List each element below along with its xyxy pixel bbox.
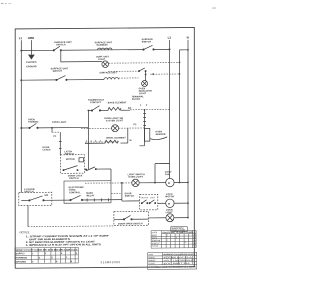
svg-text:316B02050: 316B02050 — [101, 260, 121, 264]
switch S5 oven thermostat — [29, 123, 38, 128]
svg-text:9: 9 — [71, 261, 73, 263]
svg-text:BROIL ELEMENT: BROIL ELEMENT — [106, 137, 126, 139]
wire dashed jog — [52, 131, 60, 133]
lamp oven light — [112, 125, 119, 132]
svg-text:DOOR OPEN SWITCH: DOOR OPEN SWITCH — [118, 223, 143, 225]
svg-text:SW: SW — [44, 195, 49, 197]
switch S2 right surface switch — [143, 45, 154, 50]
wire lower dashed bus — [28, 225, 114, 228]
switch S8b — [149, 200, 156, 204]
svg-text:CLOCK: CLOCK — [148, 263, 155, 265]
svg-text:2: 2 — [45, 253, 47, 255]
wire inside box row3 — [114, 218, 149, 220]
junction L1 rail C — [20, 79, 22, 81]
wire broil rail — [85, 142, 128, 144]
wire drop to lower bus — [27, 205, 29, 226]
wire row3 rail — [149, 217, 189, 219]
junction row3 N — [187, 217, 189, 219]
svg-text:6: 6 — [56, 261, 58, 263]
svg-text:8: 8 — [76, 253, 78, 255]
junction row1 mid column — [179, 182, 181, 184]
junction rail A to L3 — [169, 48, 171, 50]
svg-text:1. STRAP CONNECTIONS SHOWN AT: 1. STRAP CONNECTIONS SHOWN AT L1 OF SURF — [26, 235, 110, 239]
note box shown with door closed — [171, 227, 188, 232]
svg-text:CONTROL: CONTROL — [69, 192, 81, 194]
wire tap down to latch chain — [51, 128, 53, 133]
wire row2 rail to motor — [158, 202, 188, 204]
latch motor component block — [79, 158, 84, 162]
svg-text:SUPPLY: SUPPLY — [16, 253, 26, 255]
svg-text:SWITCH: SWITCH — [69, 178, 79, 180]
switch door latch plunger — [63, 166, 78, 171]
switch S7 inside box — [29, 196, 45, 201]
svg-text:240: 240 — [193, 240, 196, 242]
svg-text:P2: P2 — [134, 124, 138, 126]
lamp M3 oven light round — [166, 214, 174, 222]
svg-text:4: 4 — [61, 252, 63, 255]
wire mid-left vertical — [85, 110, 111, 181]
svg-text:W: W — [130, 140, 133, 142]
terminal ticks rail C right — [108, 70, 139, 72]
wire thermostat rail — [21, 126, 88, 129]
junction rail E left — [88, 110, 90, 112]
svg-text:GRD: GRD — [28, 36, 34, 40]
svg-text:BAKE: BAKE — [152, 234, 158, 237]
heating element coil E2 — [104, 78, 118, 80]
wire broil return vertical — [127, 128, 129, 143]
wire rail A top bus L1 — [21, 49, 169, 50]
svg-text:SWITCH: SWITCH — [125, 196, 135, 198]
svg-text:MOTOR: MOTOR — [165, 196, 174, 198]
dashed box lock switches — [140, 194, 158, 210]
svg-text:LIGHT: LIGHT — [98, 59, 106, 61]
table2 title block grid — [148, 252, 197, 269]
svg-text:VOLT 120/240 60HZ: VOLT 120/240 60HZ — [164, 260, 195, 262]
svg-text:UNLOCK: UNLOCK — [141, 197, 149, 199]
lamp oven light row dashed — [81, 127, 145, 130]
junction rail C mid column — [179, 73, 181, 75]
wire rail B indicator line — [109, 62, 180, 65]
svg-text:2: 2 — [32, 261, 34, 263]
svg-text:SWITCH: SWITCH — [65, 154, 75, 156]
motor M1 convection fan — [166, 178, 174, 186]
junction L1 top — [20, 50, 22, 52]
svg-text:ITEM: ITEM — [148, 254, 153, 256]
latch dashed box — [60, 155, 84, 174]
wire row1 rail — [112, 182, 132, 184]
svg-text:SERIES: SERIES — [148, 260, 156, 262]
junction drop rail A — [60, 49, 62, 51]
wire rail C dashed right part — [119, 77, 139, 79]
wire sensor curve — [150, 137, 167, 140]
lamp oven cavity light — [132, 179, 139, 186]
switch S6 bake relay contact — [70, 195, 83, 200]
terminal strip dashed rail — [85, 141, 120, 143]
wire sensor vertical — [140, 110, 145, 146]
svg-text:MOTOR: MOTOR — [66, 159, 75, 161]
wire L3 bend to row1 — [155, 163, 170, 182]
wire GRD vertical — [30, 40, 32, 55]
svg-text:HARNESS: HARNESS — [16, 256, 28, 259]
bottom-left dashed box door switch — [19, 192, 52, 205]
svg-text:N: N — [187, 36, 189, 40]
dashed box door switch row3 — [114, 211, 149, 225]
svg-text:M: M — [168, 183, 170, 185]
svg-text:BK: BK — [128, 108, 132, 110]
svg-text:VOLTS WATTS AMPS OHMS R: VOLTS WATTS AMPS OHMS R — [162, 231, 196, 234]
wire L1 vertical feeder — [20, 40, 22, 192]
wire L3 vertical feeder — [169, 40, 171, 164]
lamp surface indicator light — [102, 61, 109, 68]
junction L1 thermostat — [20, 127, 22, 129]
svg-text:SWITCH: SWITCH — [24, 191, 34, 193]
svg-text:WIRE COLOR CODE BK W R BU OR Y: WIRE COLOR CODE BK W R BU OR Y GN V GY — [16, 249, 79, 252]
svg-text:LIGHT: LIGHT — [166, 212, 174, 214]
wire row2 into box — [122, 200, 140, 202]
oven sensor box — [145, 128, 150, 141]
svg-text:3: 3 — [176, 237, 177, 239]
scan speck marks top-left — [1, 1, 216, 10]
svg-text:BLOCK: BLOCK — [132, 99, 141, 101]
svg-text:& OVEN LIGHT: & OVEN LIGHT — [106, 120, 124, 122]
svg-text:SURF RR: SURF RR — [152, 240, 161, 242]
svg-text:L3: L3 — [168, 36, 172, 40]
wire N vertical feeder — [187, 40, 189, 218]
junction link top — [121, 182, 123, 184]
wiring code table grid — [15, 247, 78, 263]
svg-text:120: 120 — [193, 245, 196, 247]
svg-text:1: 1 — [167, 240, 168, 242]
svg-text:SENSOR: SENSOR — [156, 134, 166, 136]
wire rail E dashed right — [130, 108, 170, 110]
svg-text:A WHT/BLK WIRE SUPERSEDES ALL: A WHT/BLK WIRE SUPERSEDES ALL UNITS — [149, 265, 197, 268]
junction row1 N — [187, 182, 189, 184]
svg-text:1: 1 — [140, 105, 142, 107]
switch S8a — [141, 200, 148, 204]
svg-text:2: 2 — [167, 235, 168, 237]
junction N top link — [187, 49, 189, 51]
wire mid vertical column — [180, 50, 189, 183]
switch S9 — [123, 215, 132, 220]
svg-text:P1: P1 — [53, 136, 57, 138]
svg-text:SWITCH: SWITCH — [53, 71, 63, 73]
svg-text:3: 3 — [95, 141, 97, 143]
wire rail C second bus — [21, 79, 104, 82]
svg-text:NOTES:: NOTES: — [20, 230, 31, 234]
junction row2 N — [187, 202, 189, 204]
svg-text:SWITCH: SWITCH — [56, 44, 66, 46]
svg-text:LOCK: LOCK — [150, 197, 156, 199]
junction thermostat rail tap — [51, 127, 53, 129]
svg-text:LIGHT: LIGHT — [139, 93, 147, 95]
svg-text:LATCH: LATCH — [43, 148, 51, 151]
wire vertical row1-row2 link — [121, 183, 123, 201]
wire latch drop — [59, 132, 62, 155]
svg-text:M: M — [168, 204, 170, 206]
ground chassis symbol — [28, 55, 35, 60]
heating element surface unit coil E1 — [98, 48, 112, 50]
switch S1 surface unit switch — [53, 46, 61, 51]
heating element bake E3 zigzag — [108, 107, 121, 110]
wire bottom rail through EOC — [21, 199, 122, 202]
border frame — [15, 27, 194, 268]
svg-text:L1: L1 — [19, 36, 23, 40]
svg-text:FEF366 ASF 23 A: FEF366 ASF 23 A — [164, 256, 193, 259]
svg-text:1: 1 — [32, 253, 34, 255]
svg-text:3. IMPEDANCE L2 R IS AT OPT OP: 3. IMPEDANCE L2 R IS AT OPT OPTION IN AL… — [26, 243, 102, 247]
svg-text:MODEL: MODEL — [148, 257, 155, 259]
wire EOC right dashed link — [111, 192, 122, 194]
svg-text:OVEN LIGHT: OVEN LIGHT — [52, 122, 67, 124]
switch S4 oven thermostat contact — [91, 106, 100, 112]
svg-text:UNIT SW AND ELEMENTS: UNIT SW AND ELEMENTS — [29, 238, 71, 241]
terminal ticks EOC bottom — [87, 198, 108, 201]
svg-text:GROUND: GROUND — [16, 261, 27, 263]
lamp oven indicator light — [142, 80, 148, 86]
svg-text:CHASSIS: CHASSIS — [26, 61, 37, 64]
svg-text:2: 2 — [146, 105, 148, 107]
op-amp EOC electronic oven control box U1 — [64, 181, 111, 204]
svg-text:SWITCH: SWITCH — [142, 41, 152, 43]
dashed strip inside EOC — [85, 182, 111, 184]
svg-text:5: 5 — [185, 242, 186, 244]
svg-text:RELAY: RELAY — [87, 194, 95, 197]
svg-text:EOC PART 316: EOC PART 316 — [164, 262, 190, 265]
svg-text:WIRING DIAGRAM DATA: WIRING DIAGRAM DATA — [163, 253, 196, 256]
svg-text:SURFACE UNIT: SURFACE UNIT — [99, 71, 117, 74]
svg-text:THERMO: THERMO — [28, 122, 38, 124]
svg-text:ELEMENT: ELEMENT — [97, 45, 109, 47]
svg-text:GROUND: GROUND — [26, 66, 37, 68]
motor M2 lock motor — [166, 199, 174, 207]
switch S3 surface unit switch 2 — [56, 76, 67, 81]
svg-text:BAKE: BAKE — [86, 192, 93, 195]
wire drop from S1 to rail B — [61, 50, 102, 62]
svg-text:CLEAN: CLEAN — [152, 244, 159, 247]
table1 oven chart grid — [151, 230, 196, 248]
junction rail B mid column — [179, 61, 181, 63]
terminal ticks sensor line — [143, 114, 146, 126]
junction row1 — [154, 182, 156, 184]
svg-text:BAKE ELEMENT: BAKE ELEMENT — [108, 101, 127, 104]
svg-text:OVEN LIGHT: OVEN LIGHT — [128, 176, 143, 178]
switch door latch chain — [86, 167, 97, 171]
junction lamp tap — [145, 74, 147, 76]
heating element broil E4 zigzag — [105, 140, 118, 143]
svg-text:CONTACT: CONTACT — [90, 101, 102, 104]
junction rail E sensor tap — [144, 109, 146, 111]
wire rail E bake element bus — [88, 109, 130, 111]
